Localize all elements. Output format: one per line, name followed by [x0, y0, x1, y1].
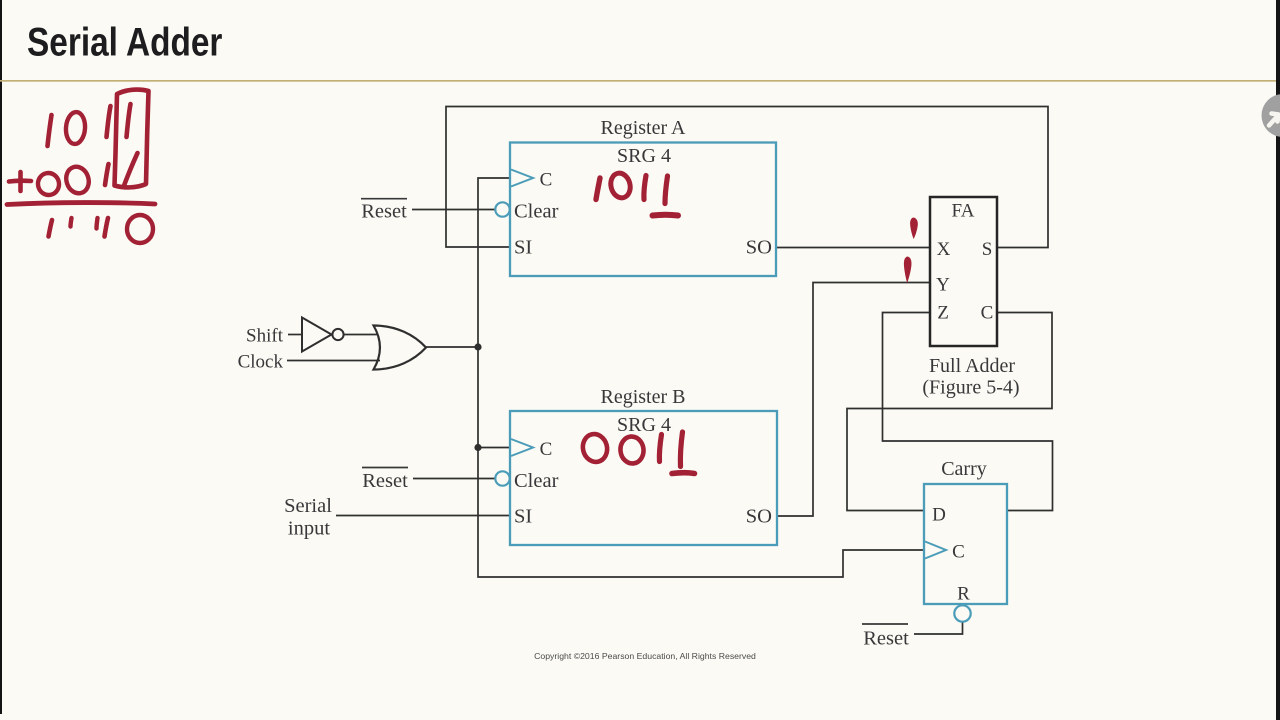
inverter (NOT gate): [302, 318, 332, 352]
svg-text:Reset: Reset: [361, 201, 407, 223]
svg-text:SI: SI: [514, 237, 532, 259]
handwritten tick 2 (row3): [97, 218, 98, 229]
wire: FA C out down to Carry D input: [847, 313, 1052, 511]
label Reset (B) with overline: [362, 468, 408, 493]
wire: Serial input to Register B SI: [336, 515, 511, 517]
wire: clock branch to Register B C: [478, 447, 511, 449]
clear bubble (B): [495, 471, 509, 485]
svg-text:C: C: [981, 303, 994, 324]
svg-text:C: C: [952, 542, 965, 563]
svg-text:Z: Z: [937, 303, 949, 324]
svg-text:C: C: [540, 170, 553, 191]
svg-text:Clock: Clock: [238, 352, 284, 373]
handwritten 1 near FA Y input: [904, 257, 912, 284]
svg-text:Shift: Shift: [246, 326, 284, 347]
register B box SRG 4: [510, 411, 777, 545]
handwritten 1011 in Register A: [596, 178, 600, 200]
handwritten digit 1 (row1): [48, 115, 52, 146]
clock triangle Register B C: [511, 439, 533, 456]
svg-text:Y: Y: [936, 275, 950, 296]
label Serial input: [284, 495, 332, 540]
wire: Carry R bubble to Reset: [914, 621, 963, 634]
wire: Clock input to OR gate: [287, 360, 380, 362]
wire: Shift input to inverter: [288, 334, 302, 336]
handwritten digit 0 (row2 first): [36, 171, 61, 197]
svg-text:Reset: Reset: [863, 628, 909, 650]
svg-text:Serial: Serial: [284, 495, 332, 517]
left black bar: [0, 0, 2, 714]
wire: Register B SO up to FA Y: [777, 283, 930, 517]
handwritten digit 0 (row2 second): [63, 164, 92, 196]
svg-text:FA: FA: [952, 201, 975, 222]
handwritten tick 1 (row3): [71, 218, 72, 227]
full adder box FA: [930, 197, 997, 346]
svg-text:SO: SO: [746, 506, 772, 528]
label Reset (A) with overline: [361, 199, 407, 223]
clear bubble (A): [495, 202, 509, 216]
wire: Reset A to Clear bubble: [412, 209, 495, 211]
svg-text:Register B: Register B: [601, 386, 686, 408]
wire: Register A SO to FA X: [776, 247, 930, 249]
svg-text:Carry: Carry: [941, 458, 987, 480]
handwritten digit 1 (row1 third): [107, 106, 111, 137]
clock triangle Carry C: [925, 542, 946, 559]
handwritten digit 1 (row3 fourth): [105, 218, 109, 237]
svg-text:Full Adder: Full Adder: [929, 355, 1015, 377]
junction dot at Register B clock branch: [474, 444, 481, 451]
handwritten digit 1 (row2 third): [105, 164, 109, 185]
wire: Carry Q output loop up to FA Z: [883, 313, 1053, 511]
svg-text:X: X: [937, 239, 951, 260]
svg-text:Copyright ©2016 Pearson Educat: Copyright ©2016 Pearson Education, All R…: [534, 651, 756, 661]
video overlay circle (next arrow): [1262, 94, 1280, 137]
right black bar: [1276, 0, 1280, 720]
clock triangle Register A C: [511, 170, 533, 187]
svg-text:SI: SI: [514, 506, 532, 528]
handwritten underline (A): [653, 212, 679, 219]
register A box SRG 4: [510, 143, 776, 277]
svg-text:D: D: [932, 505, 946, 526]
handwritten plus sign: [9, 178, 31, 183]
reset bubble (Carry R): [954, 605, 970, 621]
inverter bubble: [332, 329, 343, 340]
svg-text:Clear: Clear: [514, 470, 559, 492]
handwritten digit 1 (row3): [49, 220, 53, 237]
junction dot at OR output on clock line: [474, 343, 481, 350]
title rule: [0, 80, 1276, 82]
svg-text:SO: SO: [746, 237, 772, 259]
handwritten underline (B): [672, 470, 695, 476]
svg-text:SRG 4: SRG 4: [617, 145, 671, 167]
svg-text:S: S: [982, 239, 993, 260]
handwritten sum line: [7, 203, 155, 205]
wire: clock distribution vertical with branches: [478, 178, 924, 577]
wire: inverter output to OR input: [344, 334, 377, 336]
svg-text:R: R: [957, 584, 970, 605]
handwritten 1 near FA X input: [910, 218, 918, 240]
svg-text:input: input: [288, 518, 330, 540]
handwritten digit 0 (row3): [127, 215, 153, 243]
handwritten digit 1 (row2 fourth, boxed): [124, 153, 138, 187]
svg-text:Register A: Register A: [601, 117, 687, 139]
label Reset (Carry) with overline: [862, 624, 909, 650]
handwritten 0011 in Register B: [580, 432, 610, 465]
svg-text:(Figure 5-4): (Figure 5-4): [922, 377, 1019, 399]
svg-text:Serial Adder: Serial Adder: [27, 20, 222, 65]
svg-text:Reset: Reset: [362, 470, 408, 492]
svg-text:C: C: [540, 439, 553, 460]
carry flip-flop box: [924, 484, 1007, 604]
OR gate: [374, 326, 427, 370]
wire: Reset B to Clear bubble: [413, 478, 495, 480]
wire: OR gate output to clock line: [426, 346, 479, 348]
handwritten digit 1 (row1 fourth, boxed): [127, 104, 131, 137]
handwritten digit 0 (row1): [65, 111, 86, 144]
svg-text:Clear: Clear: [514, 201, 559, 223]
handwritten box around carry column: [115, 90, 149, 188]
wire: FA S feedback loop to Register A SI: [446, 107, 1048, 248]
